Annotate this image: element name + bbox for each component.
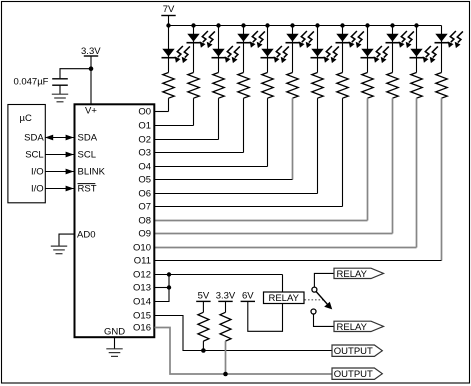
switch contact lower [311,309,316,314]
LED driver IC U1 [75,104,155,337]
svg-text:AD0: AD0 [77,230,95,241]
wire O6 horizontal [155,193,318,195]
node O13 junction [167,285,171,289]
wire O7 horizontal [155,206,343,208]
wire LED string 12 anode [441,26,443,73]
wire O14 [155,275,170,302]
tag RELAY lower [334,321,384,333]
svg-text:O2: O2 [138,134,151,145]
node O16 junction [223,372,228,377]
svg-text:RELAY: RELAY [268,293,299,304]
wire O9 vertical [392,98,394,233]
resistor R9 [362,73,373,99]
wire to upper RELAY tag [314,273,334,287]
svg-text:O14: O14 [133,296,151,307]
LED D1 [162,46,190,63]
svg-text:O4: O4 [138,161,151,172]
resistor R7 [312,73,323,99]
microcontroller U2 [8,105,45,203]
svg-text:RELAY: RELAY [337,322,368,333]
node O12 junction [167,272,171,276]
wire AD0 [59,234,74,246]
wire O3 vertical [243,98,245,152]
wire O10 horizontal [155,247,417,249]
wire O5 vertical [292,98,294,179]
node bus junction 10 [390,23,394,27]
svg-text:3.3V: 3.3V [216,290,236,301]
wire O4 horizontal [155,166,268,168]
svg-text:O10: O10 [133,242,151,253]
svg-text:GND: GND [104,326,125,337]
svg-text:O3: O3 [138,147,151,158]
svg-text:RELAY: RELAY [337,269,368,280]
node bus junction 5 [265,23,269,27]
resistor R6 [287,73,298,99]
7V supply [161,4,175,26]
wire LED string 9 anode [367,26,369,73]
ground (AD0) [51,246,67,254]
node bus junction 7 [315,23,319,27]
tag OUTPUT lower [332,368,382,380]
wire O16 route [155,328,333,375]
node bus junction 6 [290,23,294,27]
wire O6 vertical [317,98,319,193]
svg-text:RST: RST [78,184,97,195]
svg-text:5V: 5V [198,290,210,301]
node bus junction 9 [365,23,369,27]
svg-text:O8: O8 [138,215,151,226]
wire LED string 5 anode [267,26,269,73]
wire O12 [155,274,283,276]
svg-text:SCL: SCL [78,150,96,161]
resistor R12 [436,73,447,99]
svg-text:O12: O12 [133,269,151,280]
svg-text:OUTPUT: OUTPUT [334,369,373,380]
wire LED string 6 anode [292,26,294,73]
wire 6V to coil [248,301,283,331]
node bus junction 4 [241,23,245,27]
svg-text:O15: O15 [133,310,151,321]
6V supply [241,291,255,302]
wire 7V bus [169,25,442,27]
LED D8 [336,31,364,48]
resistor R10 [387,73,398,99]
svg-text:O1: O1 [138,120,151,131]
svg-text:O7: O7 [138,201,151,212]
wire GND pin [114,337,116,348]
resistor R5 [262,73,273,99]
svg-text:O0: O0 [138,106,151,117]
LED D6 [286,31,314,48]
svg-text:6V: 6V [242,291,254,302]
wire relay coil feed [282,275,284,293]
resistor R1 [163,73,174,99]
LED D9 [361,46,389,63]
svg-text:O13: O13 [133,282,151,293]
svg-text:V+: V+ [85,106,97,117]
LED D2 [187,31,215,48]
svg-text:BLINK: BLINK [78,167,106,178]
wire O3 horizontal [155,152,244,154]
resistor R4 [238,73,249,99]
3.3V supply [81,46,101,104]
switch linkage (dotted) [305,299,324,301]
wire LED string 4 anode [243,26,245,73]
wire RST [45,186,74,192]
LED D5 [261,46,289,63]
ground (GND pin) [106,349,122,357]
node bus junction 1 [166,23,170,27]
LED D7 [311,46,339,63]
svg-text:I/O: I/O [31,184,44,195]
svg-text:0.047µF: 0.047µF [13,77,48,88]
node bus junction 2 [191,23,195,27]
tag RELAY upper [334,268,384,280]
wire to lower RELAY tag [314,314,335,326]
svg-text:O6: O6 [138,188,151,199]
wire O11 vertical [441,98,443,260]
node 3.3V junction [89,66,94,71]
wire O0 horizontal [155,111,169,113]
LED D11 [410,46,438,63]
svg-text:µC: µC [20,113,32,124]
wire LED string 7 anode [317,26,319,73]
svg-text:O9: O9 [138,228,151,239]
node bus junction 3 [216,23,220,27]
wire O2 horizontal [155,139,219,141]
wire O8 horizontal [155,220,368,222]
resistor R13 (5V pullup) [198,301,209,350]
svg-text:SDA: SDA [78,133,98,144]
tag OUTPUT upper [332,345,382,357]
wire O1 horizontal [155,125,194,127]
node bus junction 8 [340,23,344,27]
resistor R2 [188,73,199,99]
wire O4 vertical [267,98,269,166]
LED D4 [237,31,265,48]
svg-text:SDA: SDA [24,133,44,144]
wire LED string 3 anode [218,26,220,73]
wire LED string 8 anode [342,26,344,73]
wire LED string 11 anode [416,26,418,73]
switch blade [316,292,332,310]
wire O2 vertical [218,98,220,139]
LED D3 [212,46,240,63]
wire BLINK [45,169,74,175]
node bus junction 11 [414,23,418,27]
svg-text:SCL: SCL [25,150,43,161]
wire O5 horizontal [155,179,293,181]
wire LED string 2 anode [193,26,195,73]
switch contact upper [312,287,317,292]
wire O11 horizontal [155,260,442,262]
wire O1 vertical [193,98,195,125]
wire O15 route [155,316,333,351]
wire cap branch [60,69,91,79]
wire O10 vertical [416,98,418,247]
wire LED string 10 anode [392,26,394,73]
node O15 junction [201,348,206,353]
wire LED string 1 anode [168,26,170,73]
resistor R11 [411,73,422,99]
resistor R8 [337,73,348,99]
svg-text:O5: O5 [138,174,151,185]
svg-text:OUTPUT: OUTPUT [334,346,373,357]
resistor R14 (3.3V pullup) [220,301,231,374]
wire SDA (bidirectional) [45,135,74,141]
wire O9 horizontal [155,233,393,235]
svg-text:7V: 7V [163,4,175,15]
relay coil K1 [264,292,305,304]
3.3V supply (pullup) [216,290,236,301]
svg-text:I/O: I/O [31,167,44,178]
svg-text:O16: O16 [133,322,151,333]
LED D12 [435,31,463,48]
5V supply [196,290,210,301]
resistor R3 [213,73,224,99]
svg-text:O11: O11 [134,255,151,266]
wire O7 vertical [342,98,344,206]
wire O0 vertical [168,98,170,111]
LED D10 [386,31,414,48]
ground (capacitor) [52,94,68,102]
wire SCL [45,152,74,158]
capacitor 0.047uF [13,77,67,95]
wire O8 vertical [367,98,369,220]
wire O13 [155,287,170,289]
